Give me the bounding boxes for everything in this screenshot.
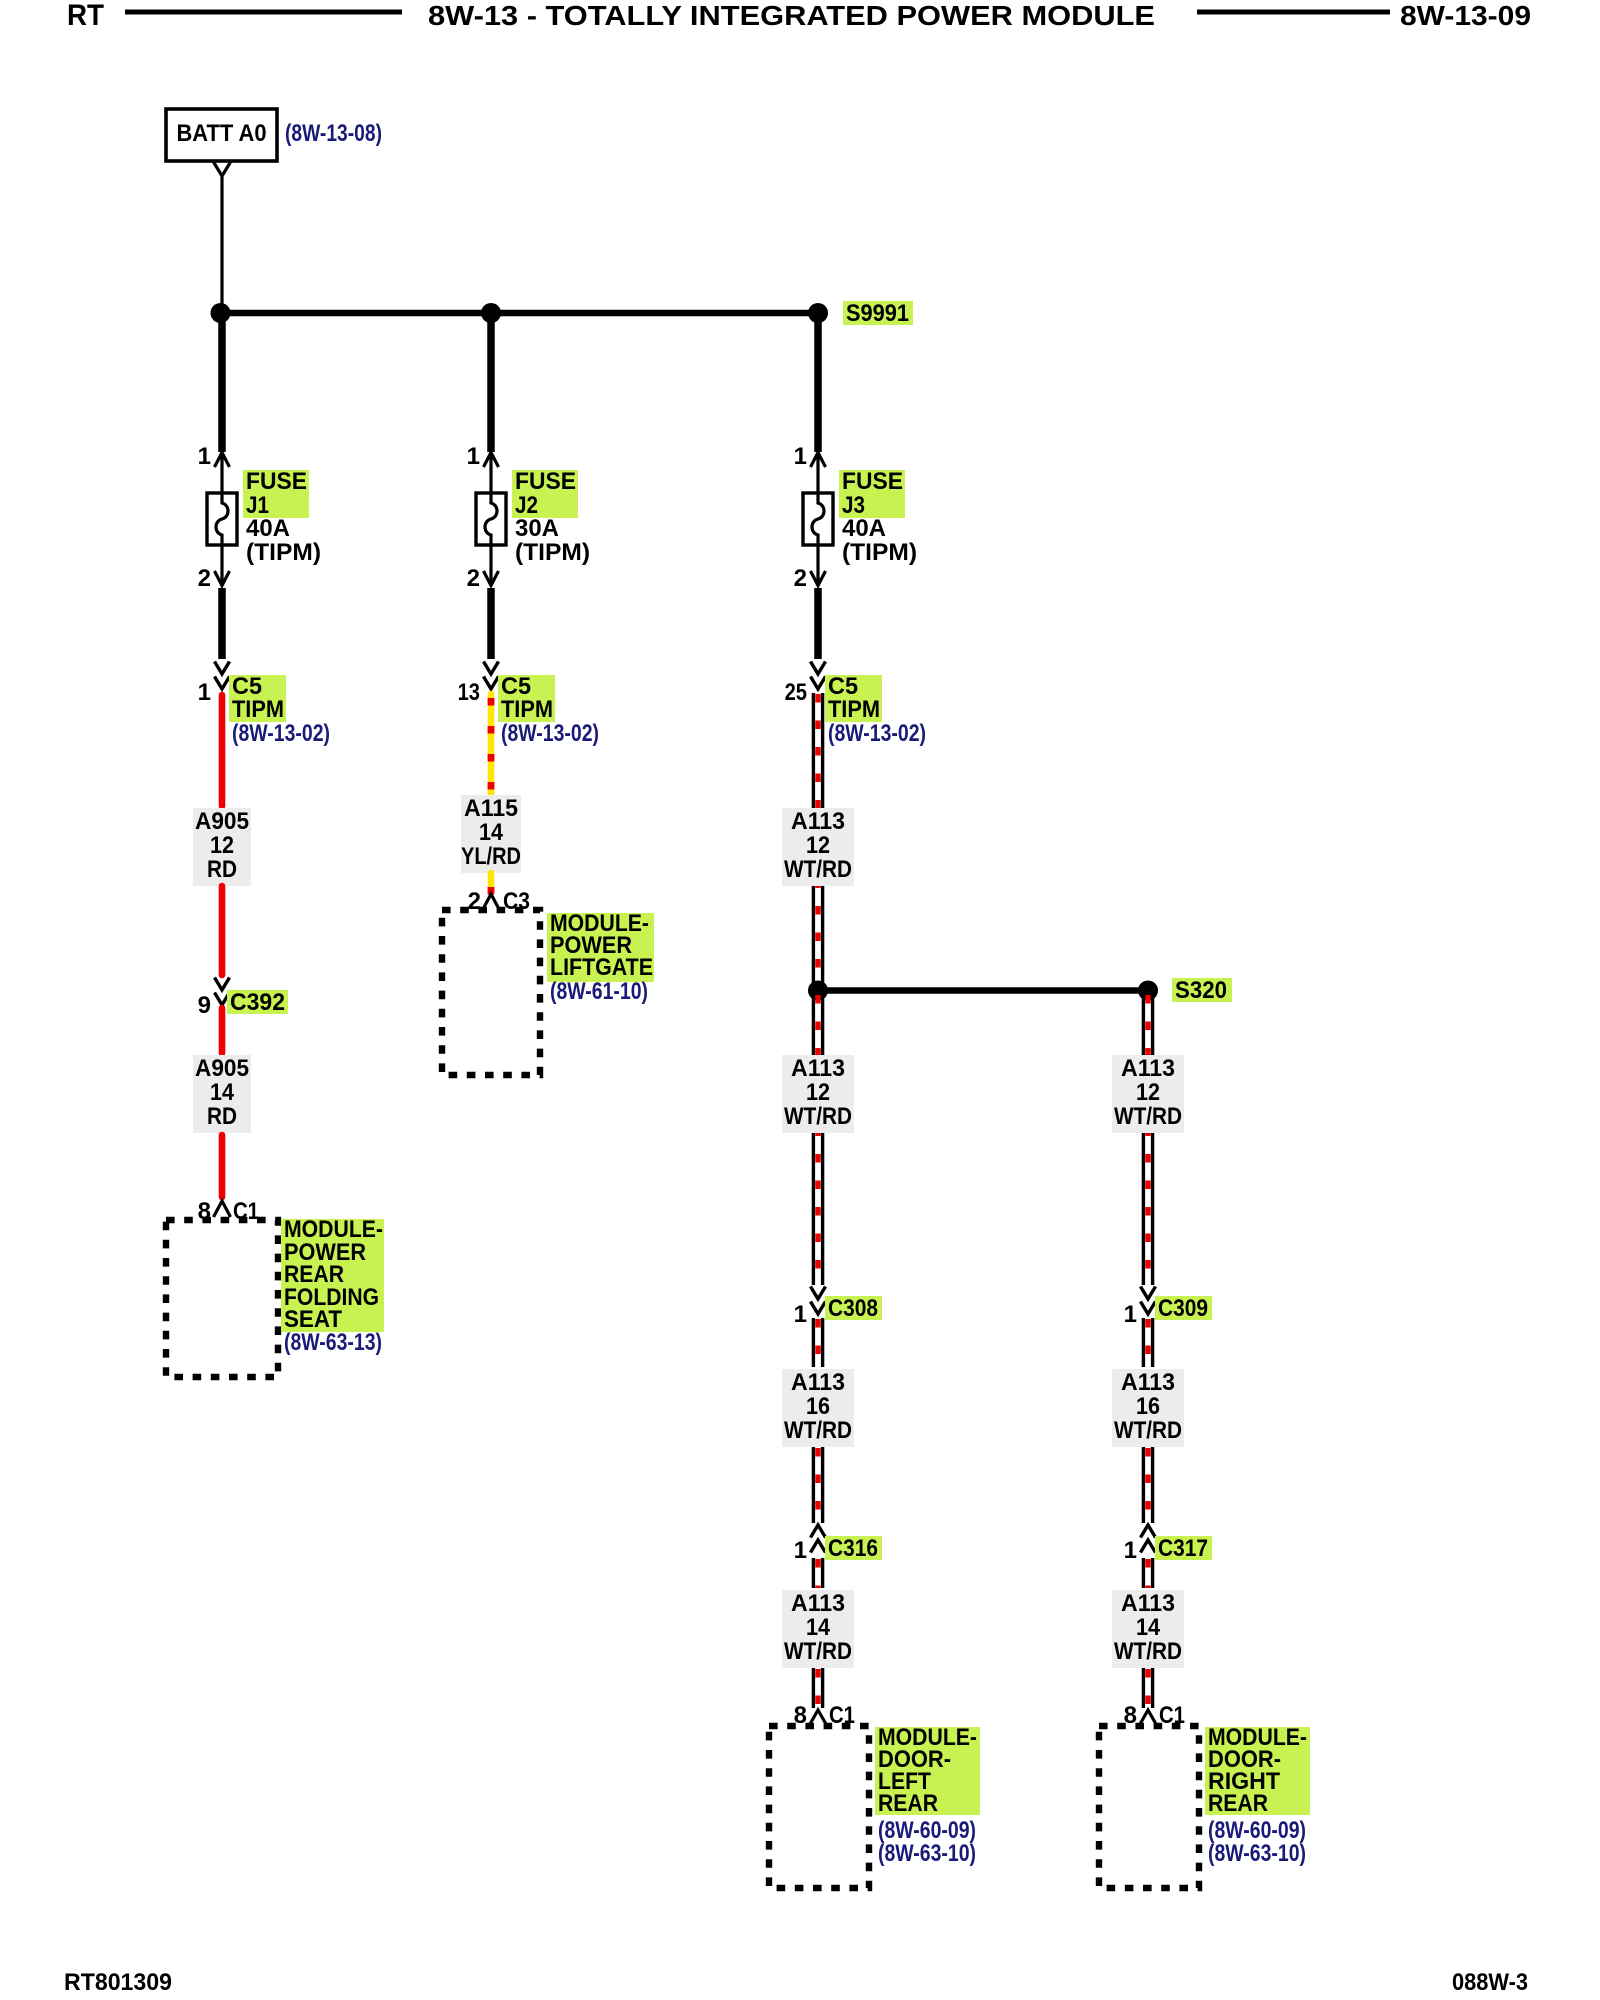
svg-text:RD: RD xyxy=(207,1103,237,1130)
reference (8W-63-10) xyxy=(1208,1840,1306,1867)
connector C392 pin 9 xyxy=(198,978,230,1020)
svg-text:TIPM: TIPM xyxy=(232,696,284,723)
svg-text:9: 9 xyxy=(198,992,211,1019)
wire pin 1 to fuse J1 body xyxy=(220,453,223,494)
wire A113 16 WT/RD lower segment (left rear) xyxy=(813,1447,822,1523)
connector C5 pin 25 xyxy=(785,662,826,707)
reference (8W-60-09) xyxy=(878,1817,976,1844)
svg-text:A113: A113 xyxy=(791,1369,845,1396)
header title xyxy=(428,0,1155,31)
wire A0 from BATT to splice S9991 xyxy=(220,176,223,310)
svg-text:S9991: S9991 xyxy=(846,300,909,327)
svg-text:16: 16 xyxy=(1136,1393,1160,1420)
svg-text:088W-3: 088W-3 xyxy=(1452,1969,1528,1996)
footer sheet code RT801309 xyxy=(64,1969,172,1996)
svg-text:14: 14 xyxy=(806,1614,831,1641)
wire A113 16 WT/RD lower segment (right rear) xyxy=(1143,1447,1152,1523)
fuse J1 body xyxy=(207,493,237,545)
wire fuse J2 to pin 2 xyxy=(489,545,492,585)
svg-text:40A: 40A xyxy=(842,515,886,542)
svg-text:TIPM: TIPM xyxy=(828,696,880,723)
svg-text:(8W-13-02): (8W-13-02) xyxy=(232,720,330,747)
wire label A113 16 WT/RD (left rear) xyxy=(782,1369,854,1447)
wire A113 16 WT/RD upper segment (right rear) xyxy=(1143,1318,1152,1367)
module door right rear box xyxy=(1099,1726,1199,1888)
wire A113 14 WT/RD lower segment (right rear) xyxy=(1143,1668,1152,1708)
wire label A113 12 WT/RD (upper) xyxy=(782,808,854,886)
wire label A113 16 WT/RD (right rear) xyxy=(1112,1369,1184,1447)
reference (8W-13-02) xyxy=(232,720,330,747)
svg-text:8W-13 - TOTALLY INTEGRATED POW: 8W-13 - TOTALLY INTEGRATED POWER MODULE xyxy=(428,0,1155,31)
wire label A113 14 WT/RD (left rear) xyxy=(782,1590,854,1668)
wire A905 14 RD lower segment xyxy=(219,1135,226,1197)
svg-text:C317: C317 xyxy=(1158,1535,1208,1562)
svg-text:(8W-61-10): (8W-61-10) xyxy=(550,978,648,1005)
svg-text:A113: A113 xyxy=(791,1590,845,1617)
connector C5 pin 13 xyxy=(458,662,499,707)
svg-text:A113: A113 xyxy=(791,1055,845,1082)
pin 2 of fuse J2 xyxy=(467,565,499,592)
connector label C309 xyxy=(1155,1295,1212,1322)
svg-text:WT/RD: WT/RD xyxy=(784,1103,852,1130)
svg-text:WT/RD: WT/RD xyxy=(784,1417,852,1444)
pin 2 of fuse J1 xyxy=(198,565,230,592)
module door left rear box xyxy=(769,1726,869,1888)
connector C5 pin 1 xyxy=(198,662,230,707)
svg-text:12: 12 xyxy=(806,1079,830,1106)
reference (8W-61-10) xyxy=(550,978,648,1005)
svg-text:C316: C316 xyxy=(828,1535,878,1562)
wire pin 1 to fuse J2 body xyxy=(489,453,492,494)
wire fuse J1 to pin 2 xyxy=(220,545,223,585)
wire A113 14 WT/RD upper segment (left rear) xyxy=(813,1558,822,1588)
module label MODULE-POWER LIFTGATE xyxy=(547,910,654,982)
svg-text:WT/RD: WT/RD xyxy=(1114,1638,1182,1665)
wire A113 14 WT/RD lower segment (left rear) xyxy=(813,1668,822,1708)
connector C1 pin 8 of left rear module xyxy=(794,1702,855,1729)
header rule left xyxy=(125,10,402,15)
connector C316 pin 1 xyxy=(794,1525,826,1564)
header rule right xyxy=(1197,10,1390,15)
connector label C317 xyxy=(1155,1535,1212,1562)
module label MODULE-DOOR-right rear REAR xyxy=(1205,1724,1310,1817)
connector label C316 xyxy=(825,1535,882,1562)
svg-text:C392: C392 xyxy=(230,989,285,1016)
svg-text:2: 2 xyxy=(467,565,480,592)
connector label C392 xyxy=(227,989,288,1016)
svg-text:(8W-63-10): (8W-63-10) xyxy=(1208,1840,1306,1867)
footer drawing number 088W-3 xyxy=(1452,1969,1528,1996)
pin 1 of fuse J2 xyxy=(467,443,499,470)
svg-text:8W-13-09: 8W-13-09 xyxy=(1400,0,1531,31)
reference (8W-63-13) xyxy=(284,1329,382,1356)
wire A115 14 YL/RD lower segment xyxy=(488,873,495,895)
module power rear folding seat box xyxy=(166,1220,278,1377)
svg-text:(TIPM): (TIPM) xyxy=(246,539,321,566)
connector C1 pin 8 of right rear module xyxy=(1124,1702,1185,1729)
svg-text:FUSE: FUSE xyxy=(515,468,576,495)
svg-text:RD: RD xyxy=(207,856,237,883)
fuse J2 body xyxy=(476,493,506,545)
svg-text:(8W-13-08): (8W-13-08) xyxy=(285,120,382,147)
svg-text:WT/RD: WT/RD xyxy=(1114,1103,1182,1130)
svg-text:1: 1 xyxy=(1124,1537,1137,1564)
reference (8W-13-02) xyxy=(828,720,926,747)
svg-text:40A: 40A xyxy=(246,515,290,542)
svg-text:A905: A905 xyxy=(195,808,249,835)
svg-text:(8W-63-10): (8W-63-10) xyxy=(878,1840,976,1867)
connector C3 pin 2 of liftgate module xyxy=(468,888,530,915)
svg-text:14: 14 xyxy=(479,819,504,846)
module label MODULE-POWER REAR FOLDING SEAT xyxy=(281,1216,384,1333)
svg-text:A113: A113 xyxy=(1121,1369,1175,1396)
svg-text:12: 12 xyxy=(806,832,830,859)
svg-text:A113: A113 xyxy=(791,808,845,835)
fuse J2 value label xyxy=(512,468,590,566)
connector C1 pin 8 of seat module xyxy=(198,1198,259,1225)
header page number 8W-13-09 xyxy=(1400,0,1531,31)
reference (8W-63-10) xyxy=(878,1840,976,1867)
svg-text:WT/RD: WT/RD xyxy=(784,1638,852,1665)
battery feed BATT A0 xyxy=(166,109,277,161)
svg-text:1: 1 xyxy=(794,1301,807,1328)
svg-text:YL/RD: YL/RD xyxy=(461,843,521,870)
module power liftgate box xyxy=(442,910,540,1075)
reference (8W-13-02) xyxy=(501,720,599,747)
connector C308 pin 1 xyxy=(794,1287,826,1329)
svg-text:1: 1 xyxy=(794,443,807,470)
wire A113 12 WT/RD from C5 to S320 xyxy=(813,693,822,987)
svg-text:25: 25 xyxy=(785,679,807,706)
svg-text:REAR: REAR xyxy=(878,1790,938,1817)
connector fork below BATT A0 xyxy=(214,162,231,176)
svg-text:C308: C308 xyxy=(828,1295,878,1322)
reference (8W-13-08) xyxy=(285,120,382,147)
svg-text:13: 13 xyxy=(458,679,480,706)
wire A113 14 WT/RD upper segment (right rear) xyxy=(1143,1558,1152,1588)
svg-text:12: 12 xyxy=(1136,1079,1160,1106)
connector label C5 TIPM xyxy=(229,673,286,723)
fuse J3 body xyxy=(803,493,833,545)
splice S9991 bus xyxy=(211,303,829,323)
svg-text:1: 1 xyxy=(1124,1301,1137,1328)
svg-text:1: 1 xyxy=(198,679,211,706)
connector label C308 xyxy=(825,1295,882,1322)
splice label S320 xyxy=(1172,977,1232,1004)
svg-text:(TIPM): (TIPM) xyxy=(515,539,590,566)
wire S9991 to fuse J2 pin 1 xyxy=(487,313,495,452)
svg-text:(8W-13-02): (8W-13-02) xyxy=(501,720,599,747)
wire label A113 12 WT/RD (right rear) xyxy=(1112,1055,1184,1133)
wire A113 12 WT/RD from S320 down (right rear) xyxy=(1143,994,1152,1285)
svg-text:FUSE: FUSE xyxy=(246,468,307,495)
svg-text:A113: A113 xyxy=(1121,1590,1175,1617)
svg-text:1: 1 xyxy=(794,1537,807,1564)
pin 2 of fuse J3 xyxy=(794,565,826,592)
wire label A905 14 RD xyxy=(193,1055,251,1133)
header label RT xyxy=(67,0,104,32)
svg-text:WT/RD: WT/RD xyxy=(1114,1417,1182,1444)
wire label A113 12 WT/RD (left rear) xyxy=(782,1055,854,1133)
wire S9991 to fuse J3 pin 1 xyxy=(814,313,822,452)
connector label C5 TIPM xyxy=(825,673,882,723)
wire A905 14 RD upper segment xyxy=(219,1008,226,1053)
wire pin 1 to fuse J3 body xyxy=(816,453,819,494)
svg-text:(TIPM): (TIPM) xyxy=(842,539,917,566)
svg-text:BATT A0: BATT A0 xyxy=(177,120,267,147)
wire A115 14 YL/RD upper segment xyxy=(488,694,495,793)
wire A113 12 WT/RD from S320 down (left rear) xyxy=(813,994,822,1285)
svg-text:A115: A115 xyxy=(464,795,518,822)
wire A905 12 RD upper segment xyxy=(219,695,226,806)
wire fuse J3 pin 2 down to connector C5 xyxy=(814,588,822,659)
wire A905 12 RD lower segment xyxy=(219,886,226,975)
wire S9991 to fuse J1 pin 1 xyxy=(218,313,226,452)
splice label S9991 xyxy=(843,300,913,327)
svg-text:14: 14 xyxy=(210,1079,235,1106)
svg-text:(8W-63-13): (8W-63-13) xyxy=(284,1329,382,1356)
module label MODULE-DOOR-left rear REAR xyxy=(875,1724,980,1817)
pin 1 of fuse J3 xyxy=(794,443,826,470)
wire fuse J3 to pin 2 xyxy=(816,545,819,585)
connector C317 pin 1 xyxy=(1124,1525,1156,1564)
svg-text:12: 12 xyxy=(210,832,234,859)
svg-text:LIFTGATE: LIFTGATE xyxy=(550,954,653,981)
svg-text:WT/RD: WT/RD xyxy=(784,856,852,883)
wire fuse J2 pin 2 down to connector C5 xyxy=(487,588,495,659)
wire label A113 14 WT/RD (right rear) xyxy=(1112,1590,1184,1668)
svg-text:RT: RT xyxy=(67,0,104,32)
svg-text:RT801309: RT801309 xyxy=(64,1969,172,1996)
svg-text:1: 1 xyxy=(467,443,480,470)
svg-text:16: 16 xyxy=(806,1393,830,1420)
pin 1 of fuse J1 xyxy=(198,443,230,470)
svg-text:14: 14 xyxy=(1136,1614,1161,1641)
svg-text:C309: C309 xyxy=(1158,1295,1208,1322)
connector label C5 TIPM xyxy=(498,673,555,723)
svg-text:REAR: REAR xyxy=(1208,1790,1268,1817)
svg-text:2: 2 xyxy=(794,565,807,592)
svg-text:30A: 30A xyxy=(515,515,559,542)
wire label A905 12 RD xyxy=(193,808,251,886)
svg-text:A905: A905 xyxy=(195,1055,249,1082)
svg-text:S320: S320 xyxy=(1175,977,1227,1004)
reference (8W-60-09) xyxy=(1208,1817,1306,1844)
svg-text:TIPM: TIPM xyxy=(501,696,553,723)
wire label A115 14 YL/RD xyxy=(461,795,521,873)
wire fuse J1 pin 2 down to connector C5 xyxy=(218,588,226,659)
splice S320 bus xyxy=(808,981,1158,1001)
svg-text:FUSE: FUSE xyxy=(842,468,903,495)
svg-text:1: 1 xyxy=(198,443,211,470)
fuse J3 value label xyxy=(839,468,917,566)
svg-text:2: 2 xyxy=(198,565,211,592)
connector C309 pin 1 xyxy=(1124,1287,1156,1329)
svg-text:(8W-13-02): (8W-13-02) xyxy=(828,720,926,747)
fuse J1 value label xyxy=(243,468,321,566)
svg-text:A113: A113 xyxy=(1121,1055,1175,1082)
wire A113 16 WT/RD upper segment (left rear) xyxy=(813,1318,822,1367)
